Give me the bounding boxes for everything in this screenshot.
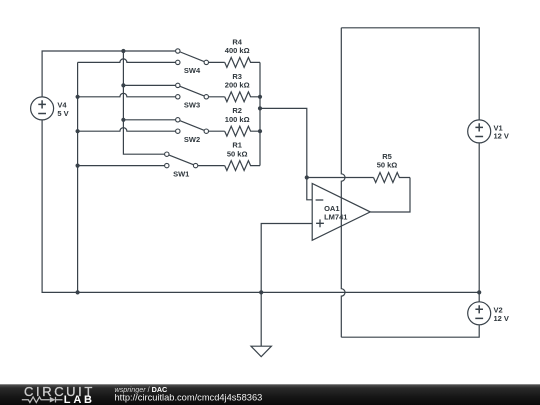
wire: summing node to op-amp inverting branch (260, 108, 307, 177)
wire: bus B to SW2 throw-B with hop over bus A (78, 128, 178, 132)
junction dot bus C output (258, 106, 262, 110)
svg-text:R1: R1 (232, 141, 242, 150)
junction dot bus A top (121, 49, 125, 53)
svg-text:R3: R3 (232, 72, 242, 81)
resistor R5 body (374, 173, 411, 183)
wire: top supply rail to V1 (341, 28, 479, 120)
voltage source V1 (468, 120, 509, 143)
junction dot bus B common rail (76, 290, 80, 294)
switch SW1 (165, 152, 198, 178)
op-amp OA1 triangle (312, 184, 370, 241)
svg-text:SW3: SW3 (184, 101, 200, 110)
wire: SW1 pole to R1 (196, 165, 225, 167)
wire: bus B vertical (77, 62, 79, 292)
svg-text:SW1: SW1 (173, 169, 189, 178)
wire: V1 bottom to V2 top (478, 143, 480, 302)
footer bar (0, 384, 540, 405)
junction dot bus C R2 (258, 129, 262, 133)
junction dot feedback node (305, 175, 309, 179)
junction dot bus B SW2 (76, 129, 80, 133)
wire: node to inverting input pin (307, 178, 312, 200)
junction dot supply midpoint (477, 290, 481, 294)
svg-text:R2: R2 (232, 106, 242, 115)
wire: bus B to SW4 throw-B with hop over bus A (78, 59, 178, 62)
voltage source V2 (468, 302, 509, 325)
wire: bus A vertical to SW1 throw-A terminal (123, 51, 166, 154)
op-amp OA1 non-inverting marker (316, 219, 324, 227)
svg-text:100 kΩ: 100 kΩ (225, 115, 250, 124)
wire: bus B to SW3 throw-B with hop over bus A (78, 93, 178, 97)
svg-text:12 V: 12 V (494, 132, 509, 141)
op-amp OA1 inverting marker (316, 199, 324, 201)
junction dot bus C R3 (258, 95, 262, 99)
wire: bus A branch to SW3 throw-A (123, 84, 177, 86)
wire: V2 bottom to op-amp V- rail (341, 325, 479, 337)
svg-text:5 V: 5 V (57, 109, 68, 118)
svg-text:SW4: SW4 (184, 66, 201, 75)
svg-text:R4: R4 (232, 37, 242, 46)
wire: R5 to op-amp output (370, 178, 410, 213)
svg-text:LAB: LAB (64, 394, 95, 405)
wire: SW4 pole to R4 (206, 61, 224, 63)
resistor R1 body (225, 161, 260, 171)
resistor R2 body (225, 126, 260, 136)
wire: bus B to SW1 throw-B (78, 165, 167, 167)
svg-text:R5: R5 (382, 152, 392, 161)
junction dot bus A SW3 (121, 83, 125, 87)
wire: bus C summing rail (259, 62, 261, 165)
svg-text:12 V: 12 V (494, 314, 509, 323)
junction dot bus B SW3 (76, 95, 80, 99)
wire: op-amp supply vertical with hops over feedback and common rails (341, 28, 345, 337)
wire: SW2 pole to R2 (206, 130, 224, 132)
svg-text:http://circuitlab.com/cmcd4j4s: http://circuitlab.com/cmcd4j4s58363 (115, 393, 263, 403)
svg-text:200 kΩ: 200 kΩ (225, 81, 250, 90)
switch SW3 (176, 83, 209, 109)
resistor R4 body (225, 57, 260, 67)
svg-text:50 kΩ: 50 kΩ (377, 161, 398, 170)
junction dot common rail ground (259, 290, 263, 294)
ground symbol (251, 346, 271, 357)
wire: feedback rail to R5 (307, 177, 374, 179)
wire: V4 bottom to common rail (42, 120, 479, 293)
junction dot bus B SW1 (76, 164, 80, 168)
svg-text:400 kΩ: 400 kΩ (225, 46, 250, 55)
svg-text:OA1: OA1 (324, 204, 339, 213)
wire: non-inverting input to common rail and ground (261, 224, 312, 347)
svg-text:50 kΩ: 50 kΩ (227, 149, 248, 158)
switch SW2 (176, 118, 209, 144)
wire: V4 top to SW4 throw-A terminal (42, 51, 178, 97)
junction dot bus A SW2 (121, 118, 125, 122)
wire: bus A branch to SW2 throw-A (123, 119, 177, 121)
voltage source V4 (31, 97, 69, 120)
resistor R3 body (225, 92, 260, 102)
wire: SW3 pole to R3 (206, 96, 224, 98)
switch SW4 (176, 49, 209, 75)
footer logo doodle resistor and diode (22, 397, 50, 403)
svg-text:SW2: SW2 (184, 135, 200, 144)
svg-text:LM741: LM741 (324, 213, 347, 222)
